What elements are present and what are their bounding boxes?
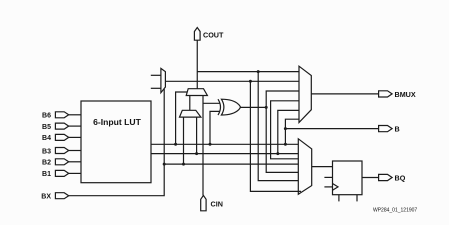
- svg-text:WP284_01_121907: WP284_01_121907: [373, 208, 417, 214]
- svg-text:B: B: [395, 125, 400, 134]
- CIN pin: [201, 195, 206, 210]
- wire V6 O6 up: [285, 119, 299, 144]
- wire carry link legs: [189, 96, 191, 111]
- svg-text:B1: B1: [42, 171, 51, 178]
- wire CIN vertical: [202, 96, 204, 196]
- svg-text:B2: B2: [42, 160, 51, 167]
- wire L2 O5 bus: [151, 153, 298, 155]
- xor gate XORCY: [218, 99, 221, 115]
- wire upper mux left input: [176, 92, 188, 144]
- wire V5 O5 up: [278, 110, 299, 153]
- wire lower mux leg left: [183, 117, 185, 164]
- input pin BX: [55, 193, 68, 199]
- input pin B2: [55, 159, 81, 165]
- carry mux upper: [186, 89, 207, 96]
- wire B line: [285, 128, 378, 130]
- svg-text:BX: BX: [41, 194, 51, 201]
- svg-text:BMUX: BMUX: [395, 90, 416, 99]
- wire FF stub CE: [324, 176, 332, 178]
- COUT pin: [194, 28, 200, 41]
- mux F7 small: [161, 68, 166, 92]
- wire FF bottom stub 2: [356, 195, 358, 202]
- FF clk triangle: [333, 184, 339, 191]
- wire small mux output to outmux: [165, 80, 299, 82]
- svg-text:B3: B3: [42, 148, 51, 155]
- node leg on L3: [182, 163, 185, 166]
- wire FF bottom stub 1: [338, 195, 340, 202]
- input pin B6: [55, 112, 81, 118]
- output pin B: [379, 126, 393, 132]
- node on 71.6: [257, 70, 260, 73]
- node xor out on V3: [265, 106, 268, 109]
- flip-flop BFF: [333, 161, 363, 195]
- node upper-left riser on L1: [174, 143, 177, 146]
- node on 81.3: [249, 80, 252, 83]
- svg-text:CIN: CIN: [211, 200, 223, 209]
- carry mux lower: [180, 110, 201, 117]
- input pin B5: [55, 123, 81, 129]
- wire L1 O6 bus: [151, 143, 298, 145]
- wire V4 link: [271, 101, 299, 159]
- wire mux stub a: [151, 74, 161, 76]
- wire FF stub CK: [324, 186, 332, 188]
- wire lower mux leg right: [196, 117, 198, 154]
- mux BOUTMUX upper: [299, 66, 311, 122]
- wire BX run: [69, 89, 165, 196]
- svg-text:6-Input LUT: 6-Input LUT: [93, 117, 141, 127]
- wire V3 sum: [266, 91, 299, 172]
- svg-text:BQ: BQ: [395, 174, 406, 183]
- wire xor top input: [203, 102, 220, 104]
- svg-text:COUT: COUT: [203, 31, 224, 40]
- node xor bottom on L1: [209, 143, 212, 146]
- svg-text:B4: B4: [42, 135, 51, 142]
- input pin B1: [55, 170, 81, 176]
- wire BMUX out: [311, 93, 378, 95]
- node leg on L2: [195, 152, 198, 155]
- wire V1 select: [250, 81, 301, 191]
- input pin B4: [55, 134, 81, 140]
- wire mux out to FF: [312, 166, 333, 168]
- wire V2 to in6: [258, 72, 298, 181]
- wire mux stub b: [151, 87, 161, 89]
- svg-text:B6: B6: [42, 113, 51, 120]
- node V6 at B line: [284, 127, 287, 130]
- wire xor bottom input: [210, 111, 220, 144]
- wire L3 BX bus: [164, 163, 298, 165]
- wire BQ out: [362, 177, 379, 179]
- 6-Input LUT box: [81, 101, 151, 183]
- output pin BQ: [379, 174, 393, 180]
- wire COUT vertical: [196, 40, 198, 88]
- node L2 at V5: [276, 152, 279, 155]
- wire COUT tap to outmux: [197, 71, 299, 73]
- wire xor output: [240, 106, 266, 108]
- input pin B3: [55, 148, 81, 154]
- mux BFFMUX lower: [298, 139, 311, 195]
- svg-text:B5: B5: [42, 124, 51, 131]
- node L1 at V6: [284, 143, 287, 146]
- node BX tee: [163, 163, 166, 166]
- output pin BMUX: [379, 91, 393, 97]
